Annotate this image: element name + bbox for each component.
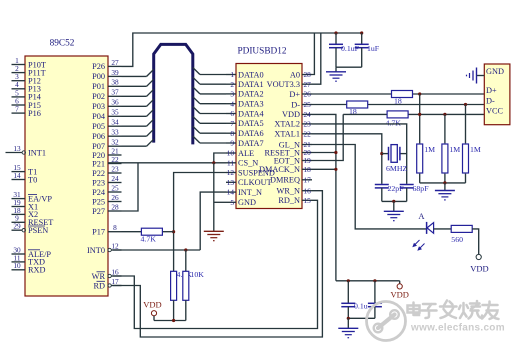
89C52 pin 30 ALE/P: [12, 245, 52, 258]
89C52 pin 26 P25: [92, 193, 121, 206]
89C52 pin 8 P17: [92, 223, 121, 236]
89C52 pin 25 P24: [92, 183, 121, 196]
svg-text:P01: P01: [92, 82, 105, 91]
89C52 pin 9 RESET: [12, 214, 54, 227]
svg-text:XTAL1: XTAL1: [274, 130, 300, 139]
svg-text:10: 10: [13, 261, 21, 270]
89C52 pin 39 P00: [92, 68, 121, 81]
junction xtal gnd: [392, 200, 395, 203]
PDIUSBD12 pin 25 D-: [291, 100, 312, 109]
89C52 pin 7 P16: [12, 105, 41, 118]
PDIUSBD12 pin 18 DMACK_N: [259, 165, 312, 174]
svg-text:RD_N: RD_N: [278, 196, 300, 205]
svg-text:P22: P22: [92, 169, 105, 178]
svg-text:CLKOUT: CLKOUT: [238, 178, 272, 187]
PDIUSBD12 pin 22 XTAL1: [274, 129, 312, 138]
wire INT0 line: [113, 249, 200, 251]
svg-text:VOUT3.3: VOUT3.3: [267, 80, 300, 89]
ground G2 ALE (stem): [204, 163, 224, 241]
junction DMACK-VDD: [334, 168, 337, 171]
svg-text:D-: D-: [291, 100, 300, 109]
wire P27 riser: [122, 163, 139, 211]
capacitor 0.1uF top: [329, 33, 360, 67]
svg-text:A0: A0: [290, 70, 300, 79]
capacitor 68pF: [400, 184, 429, 202]
svg-text:4.7K: 4.7K: [141, 235, 157, 244]
junction RESET-VDD: [334, 151, 337, 154]
junction VCC line 2: [443, 113, 446, 116]
wire D+ net: [312, 93, 484, 95]
VDD port (pullups): [143, 300, 161, 321]
wire caps bottom: [336, 66, 362, 68]
svg-text:DMACK_N: DMACK_N: [259, 165, 300, 174]
wire CS_N long: [108, 162, 226, 164]
resistor 4.7K vertical: [171, 270, 193, 300]
PDIUSBD12 pin 2 DATA1: [226, 80, 264, 89]
svg-text:34: 34: [111, 118, 119, 127]
wire P05 to bus: [122, 119, 154, 126]
89C52 pin 18 X2: [12, 206, 39, 219]
svg-text:14: 14: [227, 188, 235, 197]
wire VDD pin 24 down: [312, 114, 336, 280]
PDIUSBD12 pin 23 XTAL2: [274, 120, 312, 129]
89C52 pin 13 INT1: [6, 144, 46, 157]
svg-text:P26: P26: [92, 62, 105, 71]
svg-text:P02: P02: [92, 92, 105, 101]
svg-text:32: 32: [111, 138, 119, 147]
svg-text:RD: RD: [93, 281, 105, 290]
wire 4.7K to VCC line: [343, 113, 484, 115]
svg-text:INT_N: INT_N: [238, 188, 262, 197]
junction top rail C2: [360, 31, 363, 34]
wire P02 to bus: [122, 89, 154, 96]
wire P06 to bus: [122, 129, 154, 136]
watermark logo: [367, 302, 406, 341]
89C52 pin 35 P04: [92, 108, 121, 121]
LED D1: [412, 211, 451, 251]
svg-text:12: 12: [227, 168, 235, 177]
PDIUSBD12 pin 13 CLKOUT: [226, 178, 272, 187]
connector J1 USB: [484, 64, 510, 125]
PDIUSBD12 pin 19 EOT_N: [274, 156, 312, 165]
89C52 pin 38 P01: [92, 78, 121, 91]
svg-text:6: 6: [230, 109, 234, 118]
wire xtal caps bottom: [382, 200, 407, 202]
89C52 pin 36 P03: [92, 98, 121, 111]
PDIUSBD12 pin 17 DMREQ: [270, 175, 312, 184]
PDIUSBD12 pin 8 DATA6: [226, 129, 264, 138]
svg-text:27: 27: [304, 80, 312, 89]
svg-text:23: 23: [111, 164, 119, 173]
svg-text:24: 24: [304, 110, 312, 119]
PDIUSBD12 pin 6 DATA4: [226, 109, 264, 118]
89C52 pin 17 RD: [93, 277, 121, 290]
junction INT0-10K: [184, 248, 187, 251]
svg-text:PSEN: PSEN: [28, 226, 48, 235]
svg-text:WR: WR: [92, 272, 106, 281]
wire GL_N to LED: [312, 145, 427, 229]
89C52 pin 31 EA/VP: [12, 190, 53, 203]
junction ALE-CS: [212, 161, 215, 164]
wire 10K riser: [185, 250, 187, 271]
svg-text:28: 28: [304, 70, 312, 79]
crystal Y1 6MHZ: [382, 145, 408, 173]
resistor 18 (D-): [347, 101, 368, 116]
resistor 560: [451, 225, 472, 244]
svg-text:560: 560: [451, 235, 463, 244]
svg-text:P00: P00: [92, 72, 105, 81]
ground G1 top caps: [326, 67, 346, 81]
PDIUSBD12 pin 7 DATA5: [226, 119, 264, 128]
svg-text:19: 19: [304, 156, 312, 165]
svg-text:4: 4: [230, 99, 234, 108]
svg-text:25: 25: [111, 183, 119, 192]
svg-text:15: 15: [304, 196, 312, 205]
svg-text:7: 7: [15, 105, 19, 114]
svg-text:23: 23: [304, 120, 312, 129]
svg-text:18: 18: [304, 165, 312, 174]
svg-text:DATA7: DATA7: [238, 139, 264, 148]
svg-text:24: 24: [111, 174, 119, 183]
ground G5 below 1M: [435, 183, 455, 200]
svg-text:1: 1: [230, 70, 234, 79]
89C52 pin 24 P23: [92, 174, 121, 187]
svg-text:1uF: 1uF: [367, 44, 380, 53]
svg-text:37: 37: [111, 88, 119, 97]
PDIUSBD12 pin 12 SUSPEND: [226, 168, 275, 177]
89C52 pin 15 T1: [12, 163, 38, 176]
svg-text:CS_N: CS_N: [238, 159, 258, 168]
svg-text:T0: T0: [28, 175, 37, 184]
junction bottom caps: [347, 317, 350, 320]
svg-text:DATA0: DATA0: [238, 70, 264, 79]
wire bus to DATA5: [193, 116, 226, 123]
svg-text:PDIUSBD12: PDIUSBD12: [237, 47, 286, 57]
svg-text:DATA3: DATA3: [238, 100, 264, 109]
svg-text:DATA2: DATA2: [238, 90, 264, 99]
89C52 pin 6 P15: [12, 96, 41, 109]
wire XTAL2 net: [312, 124, 407, 184]
wire bus to DATA6: [193, 126, 226, 133]
PDIUSBD12 pin 26 D+: [289, 90, 312, 99]
resistor 1M #2: [442, 144, 460, 183]
PDIUSBD12 pin 16 WR_N: [276, 186, 312, 195]
resistor 10K vertical: [183, 270, 204, 300]
IC U1 89C52 body: [25, 39, 108, 297]
svg-text:DMREQ: DMREQ: [270, 176, 300, 185]
svg-text:WR_N: WR_N: [276, 187, 300, 196]
wire 1M2 hang: [444, 114, 446, 143]
svg-text:4.7K: 4.7K: [386, 119, 402, 128]
svg-text:16: 16: [304, 186, 312, 195]
svg-text:GND: GND: [238, 198, 256, 207]
VDD port (LED): [470, 229, 488, 274]
89C52 pin 10 RXD: [12, 261, 46, 274]
junction XTAL1-crystal: [380, 152, 383, 155]
svg-text:INT1: INT1: [28, 148, 46, 157]
capacitor 22pF: [375, 184, 404, 202]
svg-text:6MHZ: 6MHZ: [386, 164, 407, 173]
89C52 pin 27 P26: [92, 58, 121, 71]
svg-text:17: 17: [111, 277, 119, 286]
wire bus to DATA2: [193, 87, 226, 94]
svg-text:P04: P04: [92, 112, 106, 121]
wire P03 to bus: [122, 99, 154, 106]
svg-text:VDD: VDD: [282, 110, 300, 119]
wire cap rail: [336, 280, 400, 282]
wire 1M bottom rail: [420, 182, 466, 184]
wire P07 to bus: [122, 139, 154, 146]
89C52 pin 29 PSEN: [12, 222, 49, 235]
svg-text:14: 14: [13, 171, 21, 180]
data bus D0-D7: [154, 44, 193, 144]
svg-text:9: 9: [230, 139, 234, 148]
svg-text:38: 38: [111, 78, 119, 87]
svg-text:0.1u: 0.1u: [354, 301, 368, 310]
svg-text:13: 13: [227, 178, 235, 187]
wire GND pin 5: [214, 201, 226, 203]
svg-text:DATA4: DATA4: [238, 109, 264, 118]
svg-text:10: 10: [227, 149, 235, 158]
svg-text:27: 27: [111, 58, 119, 67]
svg-text:11: 11: [227, 158, 234, 167]
89C52 pin 21 P20: [92, 146, 121, 159]
89C52 pin 33 P06: [92, 128, 121, 141]
junction cap rail 1: [347, 279, 350, 282]
ground G4 crystal: [384, 201, 404, 220]
svg-text:P23: P23: [92, 178, 105, 187]
wire P00 to bus: [122, 69, 154, 76]
PDIUSBD12 pin 24 VDD: [282, 110, 312, 119]
PDIUSBD12 pin 21 GL_N: [279, 140, 312, 149]
svg-text:P24: P24: [92, 188, 106, 197]
wire bottom caps rail: [348, 317, 375, 319]
89C52 pin 2 P11T: [12, 64, 46, 77]
wire bus to DATA4: [193, 107, 226, 114]
wire resistor bottoms: [154, 300, 186, 320]
resistor 4.7K (xtal): [386, 111, 409, 128]
svg-text:1M: 1M: [449, 145, 460, 154]
PDIUSBD12 pin 3 DATA2: [226, 90, 264, 99]
resistor 18 (D+): [392, 91, 413, 106]
wire RESET_N: [312, 152, 336, 154]
89C52 pin 12 INT0: [87, 241, 121, 254]
PDIUSBD12 pin 9 DATA7: [226, 139, 264, 148]
junction cap rail 2: [373, 279, 376, 282]
wire D- to R 1M: [465, 105, 467, 144]
svg-text:VDD: VDD: [143, 300, 161, 310]
svg-text:13: 13: [13, 144, 21, 153]
PDIUSBD12 pin 10 ALE: [226, 149, 254, 158]
wire ALE down: [214, 153, 226, 163]
svg-text:ALE: ALE: [238, 149, 254, 158]
svg-text:29: 29: [13, 222, 21, 231]
wire connector GND: [477, 75, 485, 77]
wire EOT_N riser: [312, 114, 343, 160]
svg-text:P03: P03: [92, 102, 105, 111]
capacitor C bottom 2: [368, 281, 382, 319]
89C52 pin 4 P13: [12, 80, 41, 93]
wire bus to DATA1: [193, 77, 226, 84]
89C52 pin 37 P02: [92, 88, 121, 101]
svg-text:26: 26: [304, 90, 312, 99]
svg-text:A: A: [418, 211, 425, 221]
svg-text:P16: P16: [28, 109, 41, 118]
svg-text:8: 8: [230, 129, 234, 138]
svg-text:8: 8: [113, 223, 117, 232]
watermark url: [410, 323, 505, 334]
svg-text:D+: D+: [486, 86, 497, 95]
svg-text:www.elecfans.com: www.elecfans.com: [410, 323, 505, 334]
svg-text:68pF: 68pF: [413, 184, 430, 193]
wire D- net: [312, 104, 484, 106]
IC U2 PDIUSBD12 body: [236, 47, 302, 209]
svg-text:7: 7: [230, 119, 234, 128]
junction 1M rail: [443, 181, 446, 184]
svg-text:GND: GND: [486, 67, 504, 76]
PDIUSBD12 pin 15 RD_N: [278, 196, 312, 205]
resistor 1M #3: [463, 144, 481, 183]
svg-text:36: 36: [111, 98, 119, 107]
junction VCC line 1: [418, 113, 421, 116]
ground G3 bottom caps: [338, 318, 358, 337]
svg-text:22: 22: [304, 129, 312, 138]
svg-text:EOT_N: EOT_N: [274, 156, 300, 165]
svg-text:DATA5: DATA5: [238, 119, 264, 128]
svg-text:35: 35: [111, 108, 119, 117]
ground G6 connector: [467, 68, 477, 84]
wire bus to DATA0: [193, 68, 226, 75]
svg-text:25: 25: [304, 100, 312, 109]
svg-text:RXD: RXD: [28, 266, 46, 275]
svg-text:D+: D+: [289, 90, 300, 99]
wire VOUT3.3 riser: [312, 33, 321, 84]
wire P04 to bus: [122, 109, 154, 116]
wire A0 riser: [312, 33, 314, 75]
svg-text:DATA1: DATA1: [238, 80, 264, 89]
89C52 pin 3 P12: [12, 72, 41, 85]
89C52 pin 28 P27: [92, 202, 121, 215]
89C52 pin 5 P14: [12, 88, 42, 101]
svg-text:P21: P21: [92, 159, 105, 168]
watermark chinese text: [408, 301, 499, 320]
svg-text:P25: P25: [92, 197, 105, 206]
resistor 1M #1: [417, 144, 435, 183]
wire D+ to R 1M: [419, 94, 421, 143]
89C52 pin 32 P07: [92, 138, 121, 151]
svg-text:P27: P27: [92, 207, 105, 216]
junction D-: [464, 103, 467, 106]
svg-text:39: 39: [111, 68, 119, 77]
89C52 pin 22 P21: [92, 155, 121, 168]
PDIUSBD12 pin 1 DATA0: [226, 70, 264, 79]
89C52 pin 34 P05: [92, 118, 121, 131]
wire P01 to bus: [122, 79, 154, 86]
svg-text:28: 28: [111, 202, 119, 211]
89C52 pin 14 T0: [12, 171, 38, 184]
wire bus to DATA7: [193, 136, 226, 143]
89C52 pin 1 P10T: [12, 56, 46, 69]
junction SUSPEND-P17: [172, 230, 175, 233]
89C52 pin 19 X1: [12, 198, 39, 211]
PDIUSBD12 pin 11 CS_N: [226, 158, 258, 167]
PDIUSBD12 pin 20 RESET_N: [265, 148, 313, 157]
resistor 4.7K (P17): [141, 228, 163, 243]
junction top rail C1: [334, 31, 337, 34]
PDIUSBD12 pin 5 GND: [226, 198, 256, 207]
wire XTAL1 net: [312, 134, 382, 184]
svg-text:33: 33: [111, 128, 119, 137]
wire P17 net: [122, 231, 174, 233]
wire RD to WR_N rail: [113, 191, 322, 337]
PDIUSBD12 pin 4 DATA3: [226, 99, 264, 108]
89C52 pin 23 P22: [92, 164, 121, 177]
svg-text:VDD: VDD: [470, 264, 488, 274]
svg-text:D-: D-: [486, 97, 495, 106]
svg-text:VCC: VCC: [486, 107, 504, 116]
PDIUSBD12 pin 14 INT_N: [226, 188, 262, 197]
svg-text:1M: 1M: [424, 145, 435, 154]
junction VDD-resistors: [172, 319, 175, 322]
svg-text:XTAL2: XTAL2: [274, 120, 300, 129]
89C52 pin 11 TXD: [12, 253, 46, 266]
capacitor 1uF top: [355, 33, 380, 67]
svg-text:P05: P05: [92, 122, 105, 131]
capacitor 0.1uF bottom: [341, 281, 367, 319]
svg-text:DATA6: DATA6: [238, 129, 264, 138]
wire bus to DATA3: [193, 97, 226, 104]
svg-text:89C52: 89C52: [50, 39, 75, 49]
PDIUSBD12 pin 28 A0: [290, 70, 312, 79]
svg-text:26: 26: [111, 193, 119, 202]
svg-text:12: 12: [111, 241, 119, 250]
svg-text:P17: P17: [92, 228, 105, 237]
svg-text:P06: P06: [92, 132, 105, 141]
svg-text:INT0: INT0: [87, 246, 105, 255]
svg-text:16: 16: [111, 267, 119, 276]
svg-text:5: 5: [230, 198, 234, 207]
svg-text:3: 3: [230, 90, 234, 99]
PDIUSBD12 pin 27 VOUT3.3: [267, 80, 312, 89]
svg-text:17: 17: [304, 175, 312, 184]
svg-text:1M: 1M: [470, 145, 481, 154]
svg-text:VDD: VDD: [390, 290, 408, 300]
wire SUSPEND net: [174, 173, 226, 272]
wire INT_N net: [200, 192, 226, 250]
svg-text:2: 2: [230, 80, 234, 89]
svg-text:10K: 10K: [191, 270, 205, 279]
svg-text:P07: P07: [92, 142, 105, 151]
wire P26 to top rail: [122, 33, 362, 66]
89C52 pin 16 WR: [92, 267, 122, 280]
wire DMACK_N: [312, 168, 336, 170]
wire WR to RD_N rail: [113, 200, 318, 328]
VDD port (bottom): [390, 281, 408, 300]
junction D+: [418, 92, 421, 95]
